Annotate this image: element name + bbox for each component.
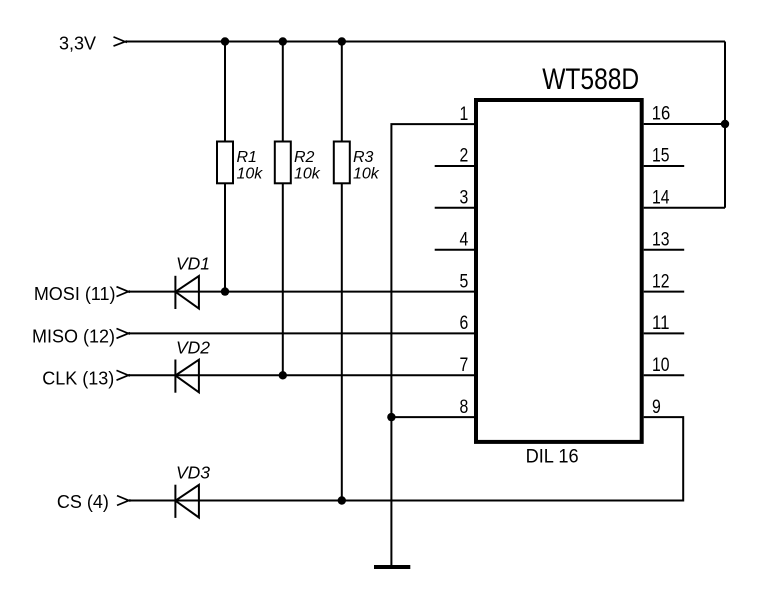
- wire MISO to pin 6: [128, 332, 474, 334]
- resistor R2: [275, 142, 291, 184]
- svg-text:VD2: VD2: [176, 337, 210, 357]
- svg-text:10k: 10k: [237, 165, 264, 182]
- svg-text:R1: R1: [237, 149, 257, 166]
- svg-text:13: 13: [652, 229, 670, 250]
- wire pin14 stub: [644, 207, 725, 209]
- junction pin8/ground column: [387, 413, 395, 421]
- wire pin12 stub: [644, 291, 685, 293]
- resistor R1: [217, 142, 233, 184]
- svg-text:16: 16: [652, 104, 671, 125]
- input arrow MOSI: [117, 287, 131, 297]
- svg-text:R2: R2: [294, 149, 315, 166]
- junction CS/R3: [338, 496, 346, 504]
- svg-text:1: 1: [460, 104, 469, 125]
- input arrow CLK: [117, 370, 131, 380]
- wire R1 column: [224, 42, 226, 292]
- svg-text:R3: R3: [353, 149, 374, 166]
- svg-text:12: 12: [652, 271, 670, 292]
- svg-text:6: 6: [460, 313, 469, 334]
- wire pin16 stub: [644, 123, 725, 125]
- input arrow CS: [117, 496, 131, 506]
- svg-text:9: 9: [652, 397, 661, 418]
- wire right drop to pins 16/14: [724, 42, 726, 208]
- wire MOSI to pin 5: [128, 291, 474, 293]
- svg-text:2: 2: [460, 146, 469, 167]
- wire pin15 stub: [644, 165, 685, 167]
- junction CLK/R2: [279, 371, 287, 379]
- svg-text:MOSI (11): MOSI (11): [34, 284, 116, 304]
- wire pin1 to ground column: [391, 124, 474, 565]
- junction pin16/rail: [721, 120, 729, 128]
- junction rail/R1: [221, 37, 229, 45]
- junction MOSI/R1: [221, 287, 229, 295]
- wire CLK to pin 7: [128, 374, 474, 376]
- wire pin8 stub: [391, 416, 474, 418]
- IC WT588D body (DIL 16): [476, 100, 642, 442]
- wire pin3 stub: [435, 207, 474, 209]
- ground: [374, 565, 410, 569]
- diode VD2: [175, 360, 199, 393]
- input arrow MISO: [117, 329, 131, 339]
- junction rail/R2: [279, 37, 287, 45]
- svg-text:CS (4): CS (4): [57, 492, 109, 512]
- wire R2 column: [282, 42, 284, 376]
- diode VD3: [175, 485, 199, 518]
- svg-text:14: 14: [652, 188, 670, 209]
- svg-text:WT588D: WT588D: [542, 63, 639, 96]
- svg-text:15: 15: [652, 146, 670, 167]
- svg-text:5: 5: [460, 271, 469, 292]
- svg-text:3: 3: [460, 188, 469, 209]
- wire CS to pin 9: [129, 417, 684, 500]
- wire 3,3V rail: [127, 41, 725, 43]
- diode VD1: [175, 276, 199, 309]
- wire pin11 stub: [644, 332, 685, 334]
- wire pin10 stub: [644, 374, 685, 376]
- svg-text:3,3V: 3,3V: [59, 33, 96, 53]
- svg-text:4: 4: [460, 229, 469, 250]
- svg-text:VD3: VD3: [176, 463, 210, 483]
- wire pin2 stub: [435, 165, 474, 167]
- svg-text:CLK (13): CLK (13): [42, 368, 114, 388]
- svg-text:7: 7: [460, 355, 469, 376]
- svg-text:VD1: VD1: [176, 254, 210, 274]
- svg-text:10k: 10k: [294, 165, 321, 182]
- wire pin4 stub: [435, 249, 474, 251]
- svg-text:8: 8: [460, 397, 469, 418]
- svg-text:MISO (12): MISO (12): [32, 327, 115, 347]
- svg-text:10: 10: [652, 355, 670, 376]
- wire R3 column: [341, 42, 343, 501]
- input arrow 3,3V: [114, 37, 128, 46]
- resistor R3: [334, 142, 350, 184]
- svg-text:11: 11: [652, 313, 670, 334]
- svg-text:DIL 16: DIL 16: [526, 445, 579, 467]
- wire pin13 stub: [644, 249, 685, 251]
- svg-text:10k: 10k: [353, 165, 380, 182]
- junction rail/R3: [338, 37, 346, 45]
